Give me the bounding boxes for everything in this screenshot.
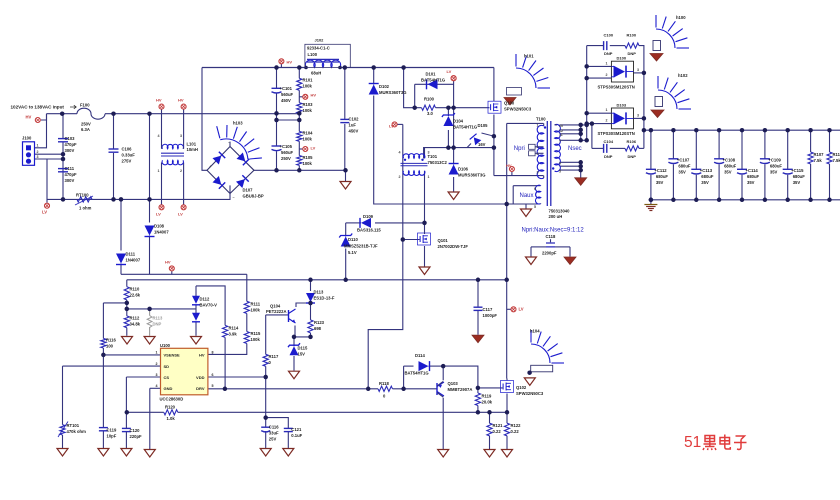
svg-text:C104: C104 [604,139,614,144]
svg-text:4: 4 [399,151,401,155]
svg-text:R118: R118 [379,381,389,386]
svg-text:3: 3 [156,373,158,377]
svg-text:HV: HV [506,163,512,168]
svg-text:GBU8J-BP: GBU8J-BP [243,194,264,199]
svg-text:300V: 300V [65,148,75,153]
svg-text:7: 7 [559,140,561,144]
svg-text:34.8k: 34.8k [130,322,141,327]
svg-text:35V: 35V [724,170,732,175]
svg-text:2: 2 [156,362,158,366]
svg-text:4: 4 [156,384,158,388]
svg-text:D104: D104 [453,119,464,124]
svg-text:680uF: 680uF [701,174,714,179]
svg-text:Q100: Q100 [504,101,515,106]
svg-text:HV: HV [165,260,171,265]
svg-text:BAT54HT1G: BAT54HT1G [405,371,429,376]
svg-text:275V: 275V [122,159,132,164]
svg-text:LV: LV [389,124,394,129]
svg-text:D101: D101 [426,72,437,77]
svg-text:560uF: 560uF [281,92,294,97]
svg-text:+C107: +C107 [677,158,690,163]
svg-text:HV: HV [311,93,317,98]
svg-text:~: ~ [233,196,235,200]
svg-text:R100: R100 [424,97,435,102]
svg-text:220pF: 220pF [130,434,143,439]
svg-text:C103: C103 [65,136,76,141]
svg-text:SD: SD [164,364,170,369]
svg-text:LV: LV [519,307,524,312]
svg-text:1: 1 [158,169,160,173]
svg-text:D107: D107 [243,188,254,193]
svg-text:+C113: +C113 [700,168,713,173]
svg-text:BAT54HT1G: BAT54HT1G [421,78,445,83]
svg-text:HV: HV [156,98,162,103]
svg-text:100k: 100k [303,84,313,89]
svg-text:R115: R115 [251,331,261,336]
svg-text:VSENSE: VSENSE [164,352,181,357]
svg-text:C106: C106 [122,147,133,152]
svg-text:C119: C119 [107,428,117,433]
svg-text:1: 1 [606,62,608,66]
svg-text:R104: R104 [303,131,314,136]
svg-text:Q102: Q102 [516,385,527,390]
svg-text:100k: 100k [251,308,261,313]
svg-text:LV: LV [156,212,161,217]
svg-text:2: 2 [606,73,608,77]
svg-text:7.5k: 7.5k [833,158,840,163]
svg-text:1 ohm: 1 ohm [79,206,92,211]
svg-text:R120: R120 [165,405,176,410]
svg-text:0.22: 0.22 [493,429,502,434]
svg-text:25V: 25V [269,437,277,442]
svg-text:D113: D113 [314,290,324,295]
svg-text:100k: 100k [251,337,261,342]
svg-text:+: + [210,165,212,169]
svg-text:R122: R122 [511,423,522,428]
svg-text:T101: T101 [428,154,438,159]
svg-text:LV: LV [447,69,452,74]
svg-text:R110: R110 [833,152,840,157]
svg-text:R107: R107 [814,152,825,157]
svg-text:8: 8 [212,350,214,354]
svg-text:D105: D105 [478,123,489,128]
svg-text:L101: L101 [187,142,197,147]
svg-text:6: 6 [212,373,214,377]
svg-text:CS: CS [164,375,170,380]
svg-text:Nsec: Nsec [568,146,582,152]
svg-text:BAT54HT1G: BAT54HT1G [453,125,477,130]
svg-text:0.22: 0.22 [511,429,520,434]
svg-text:250V: 250V [81,122,91,127]
svg-text:J100: J100 [22,136,32,141]
svg-text:680uF: 680uF [724,164,737,169]
svg-text:L100: L100 [308,52,318,57]
svg-text:5.1V: 5.1V [348,250,357,255]
svg-text:MURS360T3G: MURS360T3G [379,90,406,95]
svg-text:+C114: +C114 [746,168,759,173]
svg-text:DRV: DRV [196,386,205,391]
svg-text:h103: h103 [233,121,243,126]
svg-text:D106: D106 [458,167,469,172]
svg-text:RT101: RT101 [67,423,80,428]
svg-text:698: 698 [314,326,322,331]
svg-text:J102: J102 [315,38,325,43]
svg-text:h101: h101 [524,54,534,59]
svg-text:HV: HV [26,115,32,120]
svg-text:+C109: +C109 [768,158,781,163]
svg-text:2: 2 [180,169,182,173]
svg-text:1: 1 [537,145,539,149]
svg-text:1: 1 [606,108,608,112]
svg-text:D110: D110 [348,237,358,242]
svg-text:470k ohm: 470k ohm [67,429,87,434]
svg-text:R112: R112 [130,316,140,321]
svg-text:LV: LV [311,146,316,151]
svg-text:5: 5 [212,384,214,388]
svg-text:C118: C118 [546,234,556,239]
svg-text:1: 1 [37,144,39,148]
svg-text:DNP: DNP [604,154,613,159]
svg-text:MURS360T3G: MURS360T3G [458,173,485,178]
svg-text:BAV70-V: BAV70-V [200,303,218,308]
svg-text:7.5k: 7.5k [814,158,823,163]
svg-text:R116: R116 [106,338,116,343]
svg-text:HV: HV [178,98,184,103]
svg-text:0.33uF: 0.33uF [122,153,136,158]
svg-text:R110: R110 [130,287,140,292]
svg-text:R113: R113 [153,316,163,321]
svg-text:470pF: 470pF [65,142,78,147]
svg-text:D114: D114 [415,353,425,358]
svg-text:+C108: +C108 [723,158,736,163]
svg-text:680uF: 680uF [678,164,691,169]
svg-text:MMSZ5231B-TJF: MMSZ5231B-TJF [344,244,378,249]
svg-text:35V: 35V [747,180,755,185]
svg-text:D100: D100 [617,56,627,61]
svg-text:450V: 450V [349,129,359,134]
svg-text:35V: 35V [770,170,778,175]
svg-text:+C101: +C101 [280,86,293,91]
svg-text:h104: h104 [530,329,540,334]
svg-text:R114: R114 [229,326,239,331]
svg-text:9: 9 [559,162,561,166]
svg-text:10pF: 10pF [107,434,117,439]
svg-text:35V: 35V [793,180,801,185]
svg-text:HV: HV [199,352,205,357]
svg-text:15V: 15V [298,352,306,357]
svg-text:F100: F100 [80,103,90,108]
svg-text:D109: D109 [363,214,374,219]
svg-text:1uF: 1uF [349,123,357,128]
svg-text:35V: 35V [656,180,664,185]
svg-text:92334-C1-C: 92334-C1-C [307,46,330,51]
svg-text:3: 3 [637,68,639,72]
svg-text:2N7002DW-TJF: 2N7002DW-TJF [438,244,469,249]
svg-text:3: 3 [537,171,539,175]
svg-text:R101: R101 [303,78,314,83]
svg-text:102VAC to 138VAC input: 102VAC to 138VAC input [11,105,65,110]
svg-text:6.3A: 6.3A [81,127,90,132]
svg-text:T100: T100 [536,117,546,122]
svg-text:4: 4 [537,152,539,156]
svg-text:R121: R121 [493,423,504,428]
svg-text:5: 5 [559,169,561,173]
svg-text:RT100: RT100 [76,193,89,198]
svg-text:LV: LV [42,210,47,215]
svg-text:2: 2 [37,150,39,154]
svg-text:C121: C121 [291,427,302,432]
svg-text:DNP: DNP [153,322,162,327]
svg-text:2200pF: 2200pF [542,251,557,256]
svg-text:470pF: 470pF [65,172,78,177]
svg-text:100k: 100k [303,161,313,166]
svg-text:R100: R100 [627,33,637,38]
svg-text:SPW32N50C3: SPW32N50C3 [516,391,544,396]
svg-text:35V: 35V [701,180,709,185]
svg-text:DNP: DNP [628,154,637,159]
svg-text:R105: R105 [303,155,314,160]
svg-text:1000pF: 1000pF [483,313,498,318]
svg-text:ES1D-13-F: ES1D-13-F [314,296,335,301]
svg-text:1: 1 [428,175,430,179]
svg-text:D112: D112 [200,297,210,302]
svg-text:2: 2 [399,175,401,179]
svg-text:U100: U100 [160,343,171,348]
svg-text:450V: 450V [281,98,291,103]
svg-text:Q104: Q104 [270,304,281,309]
svg-text:UCC28630D: UCC28630D [160,397,184,402]
svg-text:22.6k: 22.6k [130,293,141,298]
svg-text:R123: R123 [314,320,325,325]
svg-text:SPW32N50C3: SPW32N50C3 [504,107,532,112]
svg-text:+C115: +C115 [791,168,804,173]
svg-text:3: 3 [37,155,39,159]
svg-text:D115: D115 [298,346,308,351]
svg-text:BAS316.115: BAS316.115 [357,228,381,233]
svg-text:51: 51 [684,434,701,451]
svg-text:100k: 100k [303,137,313,142]
svg-text:3.0: 3.0 [427,111,433,116]
svg-text:R111: R111 [251,302,261,307]
svg-text:+C105: +C105 [280,144,293,149]
svg-text:R117: R117 [269,354,279,359]
svg-text:100k: 100k [303,108,313,113]
svg-text:0.1uF: 0.1uF [291,433,302,438]
svg-text:DNP: DNP [628,51,637,56]
svg-text:STPS30SM120STN: STPS30SM120STN [598,85,635,90]
svg-text:300V: 300V [65,178,75,183]
svg-text:VDD: VDD [196,375,205,380]
svg-text:h102: h102 [678,73,688,78]
svg-text:680uF: 680uF [656,174,669,179]
svg-text:750313C2: 750313C2 [428,160,448,165]
svg-text:Npri:Naux:Nsec=9:1:12: Npri:Naux:Nsec=9:1:12 [522,228,585,234]
svg-text:2: 2 [606,119,608,123]
svg-text:1: 1 [537,124,539,128]
svg-text:LV: LV [178,212,183,217]
svg-text:C100: C100 [604,33,614,38]
svg-text:+C112: +C112 [654,168,667,173]
svg-text:680uF: 680uF [793,174,806,179]
svg-text:11: 11 [559,133,563,137]
svg-text:C102: C102 [349,117,360,122]
svg-text:3: 3 [180,134,182,138]
svg-text:3: 3 [428,151,430,155]
svg-text:1N4007: 1N4007 [126,258,141,263]
svg-text:Npri: Npri [514,146,525,152]
svg-text:20.0k: 20.0k [482,400,493,405]
svg-text:C117: C117 [483,307,493,312]
svg-text:10: 10 [559,124,563,128]
svg-text:35V: 35V [678,170,686,175]
svg-text:680uF: 680uF [770,164,783,169]
svg-text:h100: h100 [676,15,686,20]
svg-text:D103: D103 [617,103,627,108]
svg-text:100: 100 [106,344,114,349]
svg-text:68uH: 68uH [311,71,321,76]
svg-text:~: ~ [228,141,230,145]
svg-text:3.9k: 3.9k [229,332,238,337]
svg-text:560uF: 560uF [281,150,294,155]
svg-text:Q101: Q101 [438,238,449,243]
svg-text:R119: R119 [482,394,492,399]
svg-text:10mH: 10mH [187,147,198,152]
svg-text:GND: GND [164,386,173,391]
svg-text:HV: HV [287,60,293,65]
svg-text:250V: 250V [281,156,291,161]
svg-text:5: 5 [534,205,536,209]
svg-text:D108: D108 [154,224,165,229]
svg-text:1: 1 [156,350,158,354]
svg-text:750313040: 750313040 [549,209,571,214]
svg-text:1N4007: 1N4007 [154,230,169,235]
svg-text:680uF: 680uF [747,174,760,179]
svg-text:C111: C111 [65,166,75,171]
svg-text:4: 4 [158,134,160,138]
svg-text:DNP: DNP [604,51,613,56]
svg-text:D102: D102 [379,84,390,89]
svg-text:16V: 16V [478,142,486,147]
svg-text:6: 6 [534,187,536,191]
svg-text:3: 3 [637,113,639,117]
svg-text:C116: C116 [269,425,279,430]
svg-text:200 uH: 200 uH [549,214,563,219]
svg-text:STPS30SM120STN: STPS30SM120STN [598,131,635,136]
svg-text:D111: D111 [126,252,136,257]
svg-text:Naux: Naux [520,193,534,199]
svg-text:MMBT2907A: MMBT2907A [448,387,473,392]
svg-text:C120: C120 [130,428,141,433]
svg-text:R103: R103 [303,102,314,107]
svg-text:PET2222A: PET2222A [266,309,286,314]
svg-text:R106: R106 [627,139,637,144]
svg-text:1.0k: 1.0k [167,416,176,421]
svg-text:33uF: 33uF [269,431,279,436]
svg-text:Q103: Q103 [448,381,459,386]
